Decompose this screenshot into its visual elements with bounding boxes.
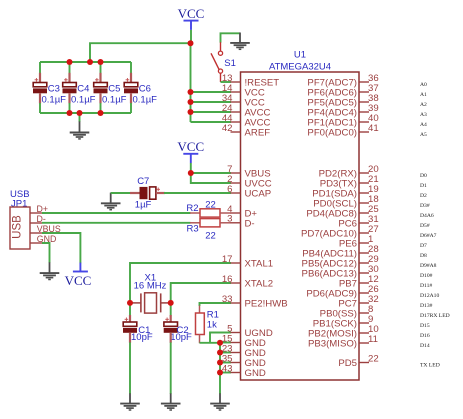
- svg-text:D14: D14: [420, 343, 430, 349]
- capacitor C2: [165, 318, 169, 320]
- capacitor C1: [125, 318, 129, 320]
- wire XTAL1 pin 17: [130, 263, 231, 303]
- wire R2 to D+ pin 4: [220, 212, 231, 214]
- crystal X1 16 MHz: [133, 302, 142, 304]
- junction GND pin 23: [217, 350, 223, 356]
- switch S1: [220, 42, 222, 51]
- svg-text:43: 43: [222, 363, 233, 374]
- junction bottom rail at C4: [67, 110, 73, 116]
- svg-text:1k: 1k: [207, 320, 217, 331]
- svg-text:11: 11: [368, 334, 378, 345]
- capacitor C5: [95, 79, 99, 81]
- wire PE2!HWB pin 33 to R1: [200, 303, 232, 306]
- svg-text:D17RX LED: D17RX LED: [420, 313, 450, 319]
- wire S1 to !RESET pin 13: [221, 81, 232, 83]
- pin 18 PD0(SCL): [359, 202, 369, 204]
- pin 9 PB1(SCK): [359, 322, 369, 324]
- pin 3 D-: [231, 222, 241, 224]
- junction top rail at VCC drop: [87, 59, 93, 65]
- svg-text:TX LED: TX LED: [420, 362, 440, 368]
- svg-text:22: 22: [205, 230, 216, 241]
- svg-text:0.1µF: 0.1µF: [102, 94, 127, 105]
- wire VBUS to VCC flag: [42, 233, 80, 263]
- wire VCC pin 14: [191, 91, 232, 93]
- svg-text:0.1µF: 0.1µF: [71, 94, 96, 105]
- wire C2 to ground: [170, 333, 172, 343]
- pin JP1 VBUS: [30, 232, 42, 234]
- pin 32 PC7: [359, 302, 369, 304]
- pin 27 PD7(ADC10): [359, 232, 369, 234]
- svg-text:AREF: AREF: [245, 128, 271, 139]
- svg-text:D6#A7: D6#A7: [420, 233, 437, 239]
- svg-text:D3#: D3#: [420, 203, 430, 209]
- wire UVCC pin 2: [191, 173, 231, 183]
- wire C7 left: [111, 192, 131, 194]
- wire S1 to ground: [221, 33, 241, 42]
- svg-text:D12A10: D12A10: [420, 293, 439, 299]
- wire C5 bottom lead: [99, 93, 101, 103]
- pin JP1 GND: [30, 242, 42, 244]
- wire GND pin 15: [220, 342, 231, 344]
- pin JP1 D+: [30, 212, 42, 214]
- svg-text:D13#: D13#: [420, 303, 433, 309]
- junction bottom rail ground tap: [77, 110, 83, 116]
- svg-text:A3: A3: [420, 112, 427, 118]
- svg-text:C5: C5: [108, 84, 120, 95]
- svg-text:D15: D15: [420, 323, 430, 329]
- pin 12 PB7: [359, 282, 369, 284]
- svg-text:A2: A2: [420, 102, 427, 108]
- wire R3 to D- pin 3: [220, 222, 231, 224]
- pin 25 PD4(ADC8): [359, 212, 369, 214]
- svg-text:A4: A4: [420, 122, 427, 128]
- pin 7 VBUS: [231, 172, 241, 174]
- pin 39 PF4(ADC4): [359, 111, 369, 113]
- svg-text:UCAP: UCAP: [245, 189, 272, 200]
- svg-text:33: 33: [222, 294, 233, 305]
- svg-text:S1: S1: [224, 58, 236, 69]
- pin 6 UCAP: [231, 192, 241, 194]
- svg-text:ATMEGA32U4: ATMEGA32U4: [269, 62, 331, 73]
- wire C4 top lead: [69, 62, 71, 73]
- wire C6 bottom lead: [130, 93, 132, 103]
- svg-text:41: 41: [368, 123, 379, 134]
- svg-text:D7: D7: [420, 243, 427, 249]
- svg-text:USB: USB: [12, 215, 24, 239]
- pin 24 AVCC: [231, 111, 241, 113]
- svg-text:D16: D16: [420, 333, 430, 339]
- svg-text:D8: D8: [420, 253, 427, 259]
- node XTAL1 junction: [127, 300, 133, 306]
- wire C3 top lead: [39, 62, 41, 73]
- svg-text:A1: A1: [420, 92, 427, 98]
- wire VCC to capacitor bank: [90, 43, 191, 62]
- wire VCC rail to IC power pins: [190, 43, 192, 122]
- svg-text:R2: R2: [186, 203, 198, 214]
- wire UGND pin 5: [210, 333, 231, 343]
- pin 42 AREF: [231, 131, 241, 133]
- svg-text:22: 22: [368, 353, 379, 364]
- svg-text:10pF: 10pF: [131, 332, 153, 343]
- pin 14 VCC: [231, 91, 241, 93]
- svg-text:VCC: VCC: [178, 6, 205, 21]
- capacitor C4: [64, 79, 68, 81]
- wire C3 bottom lead: [39, 93, 41, 103]
- pin 34 VCC: [231, 101, 241, 103]
- svg-text:D9#A8: D9#A8: [420, 263, 437, 269]
- resistor R1: [196, 313, 205, 335]
- power flag VCC (down, from VBUS): [79, 263, 81, 272]
- pin 33 PE2!HWB: [231, 302, 241, 304]
- op-amp U1 ATMEGA32U4 body: [241, 72, 360, 380]
- pin 19 PD1(SDA): [359, 192, 369, 194]
- wire C6 top lead: [130, 62, 132, 73]
- pin 11 PB3(MISO): [359, 342, 369, 344]
- wire C1 to ground: [129, 333, 131, 343]
- wire X1 to C1: [129, 303, 131, 316]
- junction GND pin 43: [217, 370, 223, 376]
- svg-text:GND: GND: [245, 368, 266, 379]
- ground (JP1): [49, 262, 51, 273]
- svg-text:A5: A5: [420, 132, 427, 138]
- pin 8 PB0(SS): [359, 312, 369, 314]
- pin 30 PB6(ADC13): [359, 272, 369, 274]
- junction GND pin 35: [217, 360, 223, 366]
- svg-text:JP1: JP1: [11, 198, 27, 209]
- pin 5 UGND: [231, 332, 241, 334]
- pin 16 XTAL2: [231, 282, 241, 284]
- svg-text:XTAL1: XTAL1: [245, 259, 274, 270]
- junction VBUS: [188, 170, 194, 176]
- svg-text:22: 22: [205, 199, 216, 210]
- pin 43 GND: [231, 372, 241, 374]
- wire C4 bottom lead: [68, 93, 70, 103]
- svg-text:C7: C7: [137, 176, 149, 187]
- capacitor C6: [126, 79, 130, 81]
- junction top rail at C4: [67, 59, 73, 65]
- svg-text:C6: C6: [139, 84, 151, 95]
- pin 41 PF0(ADC0): [359, 131, 369, 133]
- wire ground drop: [79, 113, 81, 122]
- svg-text:16 MHz: 16 MHz: [134, 281, 167, 292]
- pin 31 PC6: [359, 222, 369, 224]
- pin 26 PD6(ADC9): [359, 292, 369, 294]
- svg-text:XTAL2: XTAL2: [245, 279, 274, 290]
- node VCC junction: [188, 40, 194, 46]
- svg-text:D1: D1: [420, 183, 427, 189]
- wire VCC to VBUS/UVCC: [190, 163, 192, 173]
- pin 29 PB5(ADC12): [359, 262, 369, 264]
- ground (capacitor bank): [79, 121, 81, 132]
- pin 38 PF5(ADC5): [359, 101, 369, 103]
- wire R1 to GND bus: [199, 335, 201, 344]
- ground (reset switch): [239, 33, 241, 43]
- svg-text:R3: R3: [187, 223, 199, 234]
- svg-text:0.1µF: 0.1µF: [42, 94, 67, 105]
- svg-text:1µF: 1µF: [135, 200, 152, 211]
- pin 2 UVCC: [231, 182, 241, 184]
- resistor R2: [200, 209, 220, 217]
- wire XTAL2 pin 16: [171, 283, 231, 303]
- wire GND pin 23: [220, 352, 231, 354]
- ground (C7): [110, 193, 112, 204]
- wire VBUS pin 7: [191, 172, 231, 174]
- svg-text:A0: A0: [420, 82, 427, 88]
- wire GND bus: [219, 343, 221, 394]
- wire GND pin 35: [220, 362, 231, 364]
- wire GND pin 43: [220, 372, 231, 374]
- svg-text:16: 16: [222, 274, 233, 285]
- node XTAL2 junction: [168, 300, 174, 306]
- pin 37 PF6(ADC6): [359, 91, 369, 93]
- pin 23 GND: [231, 352, 241, 354]
- svg-text:D4A6: D4A6: [420, 213, 434, 219]
- svg-text:D0: D0: [420, 173, 427, 179]
- svg-text:17: 17: [222, 254, 233, 265]
- wire capacitor bank bottom rail: [40, 112, 131, 114]
- pin 13 !RESET: [231, 81, 241, 83]
- svg-text:D5#: D5#: [420, 223, 430, 229]
- svg-text:PF0(ADC0): PF0(ADC0): [307, 128, 357, 139]
- pin 44 AVCC: [231, 121, 241, 123]
- junction GND pin 15: [217, 340, 223, 346]
- wire capacitor bank top rail: [40, 61, 131, 63]
- wire AVCC pin 24: [191, 111, 232, 113]
- wire GND of JP1: [42, 243, 50, 263]
- svg-text:D-: D-: [245, 218, 255, 229]
- pin JP1 D-: [30, 222, 42, 224]
- ground (C1): [129, 393, 131, 403]
- wire D+ to R2: [42, 212, 191, 214]
- pin 17 XTAL1: [231, 262, 241, 264]
- wire C5 top lead: [100, 62, 102, 73]
- pin 35 GND: [231, 362, 241, 364]
- svg-text:C4: C4: [77, 84, 89, 95]
- wire X1 to C2: [170, 303, 172, 316]
- wire VCC pin 34: [191, 101, 232, 103]
- svg-text:42: 42: [222, 123, 233, 134]
- svg-text:3: 3: [227, 214, 232, 225]
- ground (C2): [170, 393, 172, 403]
- ground (GND bus): [219, 393, 221, 403]
- junction VCC pin 14: [188, 89, 194, 95]
- pin 40 PF1(ADC1): [359, 121, 369, 123]
- svg-text:PE2!HWB: PE2!HWB: [245, 299, 288, 310]
- svg-text:D10#: D10#: [420, 273, 433, 279]
- wire C7 right to UCAP pin 6: [156, 192, 165, 194]
- capacitor C7: [140, 187, 148, 199]
- pin 28 PB4(ADC11): [359, 252, 369, 254]
- junction top rail at C5: [98, 59, 104, 65]
- junction bottom rail at C5: [98, 110, 104, 116]
- svg-text:U1: U1: [294, 50, 306, 61]
- svg-text:10pF: 10pF: [170, 332, 192, 343]
- svg-text:6: 6: [227, 184, 232, 195]
- svg-text:D11#: D11#: [420, 283, 432, 289]
- capacitor C3: [35, 79, 39, 81]
- svg-text:VCC: VCC: [65, 273, 92, 288]
- pin 4 D+: [231, 212, 241, 214]
- svg-text:C3: C3: [48, 84, 60, 95]
- pin 10 PB2(MOSI): [359, 332, 369, 334]
- svg-text:VCC: VCC: [177, 139, 204, 154]
- pin 20 PD2(RX): [359, 172, 369, 174]
- pin 21 PD3(TX): [359, 182, 369, 184]
- wire D- to R3: [42, 222, 191, 224]
- svg-text:0.1µF: 0.1µF: [133, 94, 158, 105]
- junction AVCC pin 24: [188, 109, 194, 115]
- pin 36 PF7(ADC7): [359, 81, 369, 83]
- svg-text:PB3(MISO): PB3(MISO): [308, 339, 357, 350]
- pin 1 PE6: [359, 242, 369, 244]
- resistor R3: [200, 219, 220, 227]
- svg-text:D2: D2: [420, 193, 427, 199]
- pin 22 PD5: [359, 362, 369, 364]
- wire VCC flag stem: [190, 30, 192, 43]
- junction VCC pin 34: [188, 99, 194, 105]
- svg-text:PD5: PD5: [338, 358, 357, 369]
- pin 15 GND: [231, 342, 241, 344]
